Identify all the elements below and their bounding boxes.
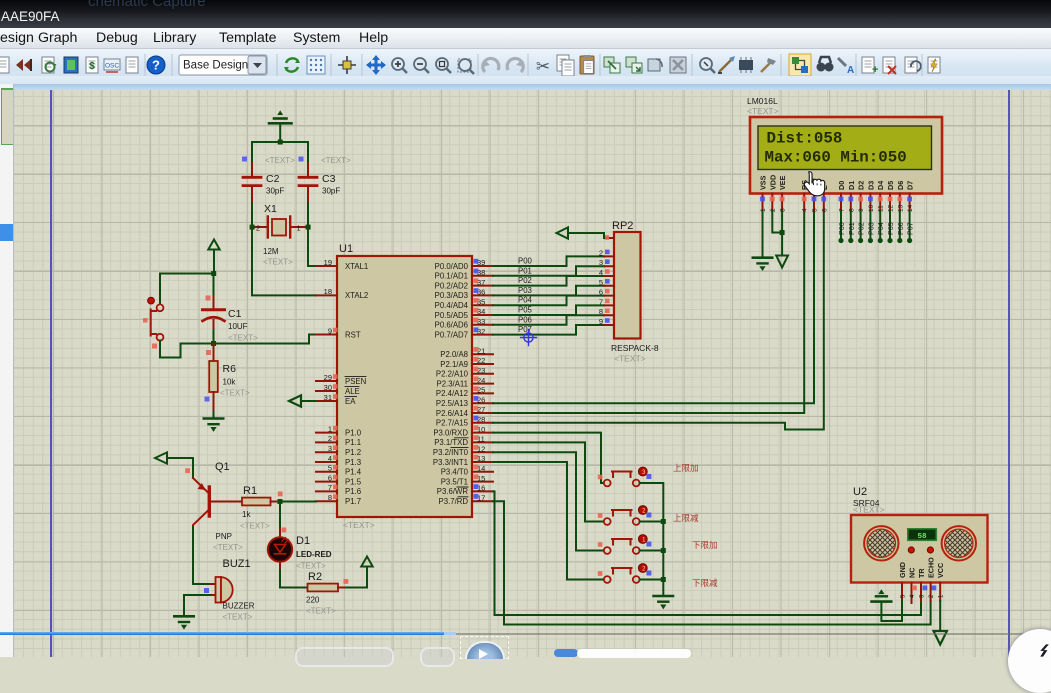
svg-text:19: 19	[324, 258, 332, 267]
svg-text:P3.2/INT0: P3.2/INT0	[433, 448, 469, 457]
resistor R2	[306, 571, 346, 616]
icon new sheet	[862, 57, 878, 76]
resistor pack RP2	[611, 220, 659, 364]
wire P07 net U1 to RP2	[493, 325, 604, 335]
icon hammer	[761, 58, 776, 72]
wire P05 net U1 to RP2	[493, 305, 604, 315]
U1 left pin stubs	[316, 266, 337, 501]
node junction R1/D1	[278, 499, 283, 504]
wire LCD D0 dangling	[840, 211, 842, 240]
capacitor C2	[242, 156, 295, 203]
node junction key3	[661, 548, 666, 553]
icon goto sheet	[905, 57, 921, 73]
wire C2 bottom to X1	[251, 203, 253, 227]
U1 right overlines TXD INT0 WR RD	[451, 438, 468, 497]
crystal X1	[252, 203, 308, 267]
capacitor C3	[299, 156, 352, 203]
svg-text:PSEN: PSEN	[345, 377, 366, 386]
power terminal left arrow (Q1 emitter)	[155, 452, 167, 463]
svg-text:12M: 12M	[263, 247, 279, 256]
wire D1 to R2	[280, 570, 308, 588]
svg-text:NC: NC	[908, 568, 917, 578]
svg-text:P05: P05	[518, 306, 533, 315]
svg-text:D3: D3	[866, 181, 875, 190]
svg-text:P04: P04	[518, 296, 533, 305]
separator	[527, 54, 529, 76]
svg-text:P0.7/AD7: P0.7/AD7	[435, 330, 468, 339]
LCD pin state squares	[760, 197, 912, 202]
power terminal up (R2)	[361, 557, 372, 567]
svg-text:P0.2/AD2: P0.2/AD2	[435, 281, 468, 290]
svg-text:P03: P03	[866, 222, 875, 235]
U1 right pin stubs	[472, 266, 493, 501]
svg-text:RESPACK-8: RESPACK-8	[611, 343, 659, 353]
svg-text:<TEXT>: <TEXT>	[747, 106, 779, 116]
power terminal left arrow (EA)	[289, 395, 301, 406]
sheet border right	[1008, 90, 1010, 657]
block copy icon	[604, 57, 620, 73]
SRF04 U2 body	[851, 515, 988, 583]
svg-text:PNP: PNP	[216, 532, 232, 541]
svg-text:4: 4	[802, 208, 809, 212]
player ghost control 1	[295, 647, 394, 667]
wire P3.0 to key 1	[493, 433, 604, 483]
wire LCD D3 dangling	[869, 211, 871, 240]
svg-text:GND: GND	[898, 562, 907, 578]
svg-text:<TEXT>: <TEXT>	[220, 389, 250, 398]
SRF04 digital display	[908, 529, 937, 541]
push button key3	[598, 535, 652, 554]
wire LCD D2 dangling	[860, 211, 862, 240]
U1 left pin numbers	[324, 258, 332, 502]
icon ic-edit	[739, 57, 753, 73]
svg-text:U1: U1	[339, 243, 353, 255]
svg-text:30: 30	[324, 383, 332, 392]
icon dollar doc	[86, 57, 98, 73]
svg-text:D5: D5	[886, 181, 895, 190]
svg-text:9: 9	[328, 326, 332, 335]
svg-text:P2.6/A14: P2.6/A14	[436, 409, 469, 418]
LCD pin numbers	[760, 204, 914, 212]
svg-text:R1: R1	[243, 485, 257, 497]
wire C2 top	[251, 142, 253, 163]
block delete icon	[670, 57, 686, 73]
svg-text:P1.6: P1.6	[345, 487, 361, 496]
svg-text:ALE: ALE	[345, 387, 360, 396]
separator	[855, 54, 857, 76]
icon help	[147, 56, 165, 74]
svg-text:10UF: 10UF	[228, 322, 248, 331]
wire P3.6 to SRF04 TR	[493, 491, 921, 615]
svg-text:VDD: VDD	[768, 175, 777, 190]
wire P3.2 to key 3	[493, 452, 604, 550]
ground (crystal top)	[269, 111, 292, 142]
svg-text:P1.5: P1.5	[345, 477, 362, 486]
power terminal (RST top)	[208, 240, 219, 274]
svg-text:VSS: VSS	[759, 175, 768, 190]
SRF04 pin stubs	[902, 583, 940, 604]
player dashed focus box	[460, 636, 509, 659]
U1 right pin names	[433, 262, 469, 506]
svg-text:P07: P07	[906, 222, 915, 235]
ground (SRF04)	[872, 590, 892, 601]
svg-text:D7: D7	[906, 181, 915, 190]
svg-text:2: 2	[599, 248, 603, 257]
wire P3.3 to key 4	[493, 462, 604, 580]
svg-text:RST: RST	[345, 330, 361, 339]
svg-text:29: 29	[324, 373, 332, 382]
svg-text:P3.4/T0: P3.4/T0	[441, 468, 469, 477]
wire P06 net U1 to RP2	[493, 315, 604, 325]
svg-text:P1.1: P1.1	[345, 438, 361, 447]
wire LCD D6 dangling	[899, 211, 901, 240]
node junction crystal top	[278, 140, 283, 145]
U1 pin name overlines PSEN ALE EA	[345, 377, 366, 397]
svg-text:1k: 1k	[242, 510, 251, 519]
power terminal down (VEE)	[776, 256, 788, 268]
svg-text:9: 9	[599, 317, 603, 326]
SRF04 led 2	[927, 547, 933, 553]
svg-text:P2.5/A13: P2.5/A13	[436, 399, 468, 408]
svg-text:8: 8	[328, 493, 332, 502]
svg-text:6: 6	[328, 473, 332, 482]
node junction VDD/VEE	[780, 230, 785, 235]
U1 right pin state squares	[474, 259, 479, 499]
svg-text:P01: P01	[847, 222, 856, 235]
svg-text:P1.7: P1.7	[345, 497, 361, 506]
svg-text:P3.7/RD: P3.7/RD	[439, 497, 469, 506]
ground (keys)	[654, 596, 673, 608]
separator	[330, 54, 332, 76]
push button key4	[598, 564, 652, 583]
svg-text:BUZ1: BUZ1	[223, 558, 251, 570]
wire P2.5 to LCD RW	[493, 211, 814, 403]
icon copy	[557, 55, 574, 76]
svg-text:P01: P01	[518, 266, 532, 275]
wire crystal top node	[252, 141, 308, 143]
svg-text:P02: P02	[857, 222, 866, 235]
wire P03 net U1 to RP2	[493, 286, 604, 296]
svg-text:P1.3: P1.3	[345, 458, 361, 467]
svg-text:1: 1	[328, 424, 332, 433]
wire R1 to U1 P1.7	[280, 501, 316, 503]
svg-text:2: 2	[328, 434, 332, 443]
wire P2.6 to LCD RS	[493, 211, 804, 413]
svg-text:P2.4/A12: P2.4/A12	[436, 389, 468, 398]
svg-text:C3: C3	[322, 173, 336, 185]
svg-text:<TEXT>: <TEXT>	[265, 156, 295, 165]
separator	[144, 54, 146, 76]
RP2 pin 1 stub	[604, 237, 614, 239]
svg-text:6: 6	[599, 288, 603, 297]
svg-text:C2: C2	[266, 173, 280, 185]
svg-text:3: 3	[328, 444, 332, 453]
separator	[599, 54, 601, 76]
svg-text:P03: P03	[518, 286, 532, 295]
left object selector panel	[0, 84, 14, 657]
svg-text:P3.3/INT1: P3.3/INT1	[433, 458, 468, 467]
wire P2.7 to LCD E	[493, 211, 824, 430]
svg-text:<TEXT>: <TEXT>	[321, 156, 351, 165]
icon undo (disabled)	[482, 58, 499, 72]
svg-text:<TEXT>: <TEXT>	[223, 613, 253, 622]
wire P3.1 to key 2	[493, 442, 604, 521]
wire reset button bottom to C1 bottom node	[160, 341, 214, 358]
block move icon	[626, 57, 642, 73]
svg-text:P0.5/AD5: P0.5/AD5	[435, 311, 469, 320]
mouse cursor	[804, 172, 824, 196]
microcontroller U1 body	[337, 243, 472, 530]
SRF04 pin state squares	[912, 586, 936, 591]
icon grid dots	[307, 56, 325, 74]
svg-text:P0.1/AD1: P0.1/AD1	[435, 272, 468, 281]
svg-text:P2.7/A15: P2.7/A15	[436, 419, 469, 428]
svg-text:BUZZER: BUZZER	[223, 602, 255, 611]
svg-text:6: 6	[821, 208, 828, 212]
node junction key4	[661, 577, 666, 582]
wire LCD D7 dangling	[909, 211, 911, 240]
LCD LM016L body	[750, 117, 942, 194]
svg-text:P00: P00	[518, 257, 533, 266]
LED D1	[268, 529, 332, 571]
icon zoom all	[436, 58, 451, 73]
svg-text:P1.2: P1.2	[345, 448, 361, 457]
block rotate icon	[648, 59, 662, 71]
transistor Q1 PNP	[193, 461, 243, 584]
origin marker	[521, 330, 537, 346]
svg-text:U2: U2	[853, 486, 867, 498]
separator	[361, 54, 363, 76]
svg-text:Max:060 Min:050: Max:060 Min:050	[765, 149, 907, 167]
power terminal down (SRF04 VCC)	[934, 631, 947, 645]
svg-text:R6: R6	[223, 363, 237, 375]
U1 left pin state squares	[333, 328, 338, 499]
svg-text:C1: C1	[228, 308, 242, 320]
toolbar	[0, 49, 1051, 84]
wire junction to D1	[279, 502, 281, 530]
svg-text:P2.1/A9: P2.1/A9	[440, 360, 468, 369]
svg-text:D4: D4	[876, 181, 885, 190]
svg-text:上限加: 上限加	[673, 463, 699, 473]
icon cut	[536, 57, 550, 76]
ground (BUZ1)	[174, 616, 193, 628]
icon back arrows	[16, 59, 31, 71]
svg-text:<TEXT>: <TEXT>	[240, 522, 270, 531]
svg-text:<TEXT>: <TEXT>	[614, 354, 646, 364]
node junction key2	[661, 519, 666, 524]
svg-text:<TEXT>: <TEXT>	[296, 562, 326, 571]
wire key4 to ground	[640, 580, 664, 595]
RP2 pins 2-9 stubs	[604, 256, 614, 325]
separator	[276, 54, 278, 76]
icon paste	[580, 55, 594, 74]
svg-text:VCC: VCC	[936, 563, 945, 578]
svg-text:7: 7	[599, 297, 603, 306]
wire SRF04 GND to ground	[881, 601, 902, 621]
svg-text:P04: P04	[876, 222, 885, 235]
separator	[691, 54, 693, 76]
sheet border left	[50, 90, 52, 657]
icon property wrench	[838, 58, 854, 76]
player blue pill	[554, 649, 578, 657]
RP2 pin state squares	[605, 250, 610, 323]
window title bar	[0, 0, 1051, 28]
node junction C1/R6/RST	[211, 341, 216, 346]
svg-text:Q1: Q1	[215, 461, 230, 473]
svg-text:Dist:058: Dist:058	[767, 130, 843, 148]
wire node to reset button	[160, 274, 214, 304]
svg-text:P2.0/A8: P2.0/A8	[440, 350, 468, 359]
LCD pin names	[759, 175, 915, 190]
wire P01 net U1 to RP2	[493, 266, 604, 276]
separator	[477, 54, 479, 76]
push button key1	[598, 467, 652, 486]
svg-text:LED-RED: LED-RED	[296, 550, 332, 559]
wire X1 left to XTAL2	[252, 227, 316, 295]
reset push button	[143, 297, 163, 348]
separator	[171, 54, 173, 76]
icon partial left edge	[0, 57, 9, 73]
svg-text:220: 220	[306, 596, 320, 605]
svg-text:2: 2	[256, 224, 260, 233]
svg-text:5: 5	[599, 278, 603, 287]
U1 right pin numbers	[477, 258, 485, 502]
svg-text:4: 4	[328, 454, 332, 463]
svg-text:P06: P06	[518, 315, 532, 324]
video progress bar played	[0, 632, 444, 635]
wire LCD VEE to power	[781, 211, 783, 255]
svg-text:P3.6/WR: P3.6/WR	[437, 487, 469, 496]
svg-text:RP2: RP2	[612, 220, 633, 232]
push button key2	[598, 506, 652, 525]
svg-text:D0: D0	[837, 181, 846, 190]
svg-text:<TEXT>: <TEXT>	[306, 607, 336, 616]
svg-text:<TEXT>: <TEXT>	[263, 258, 293, 267]
logo circle bottom right	[1008, 629, 1051, 693]
svg-text:P0.4/AD4: P0.4/AD4	[435, 301, 469, 310]
resistor R6	[205, 344, 251, 413]
buzzer BUZ1	[204, 558, 255, 622]
svg-text:1: 1	[297, 224, 301, 233]
svg-text:LM016L: LM016L	[747, 96, 778, 106]
svg-text:P1.0: P1.0	[345, 428, 362, 437]
capacitor C1	[203, 274, 259, 356]
svg-text:30pF: 30pF	[322, 187, 340, 196]
separator	[780, 54, 782, 76]
svg-text:下限减: 下限减	[692, 578, 718, 588]
svg-text:VEE: VEE	[778, 175, 787, 190]
player play button	[465, 641, 505, 659]
icon remove sheet	[883, 57, 896, 74]
player ghost control 2	[420, 647, 455, 667]
RP2 pin numbers	[599, 248, 603, 326]
icon pick	[700, 58, 715, 73]
wire C3 bottom to X1	[307, 203, 309, 227]
node junction X1 left	[250, 225, 255, 230]
wire R2 to power	[346, 567, 367, 588]
player white bar	[577, 649, 691, 658]
icon refresh green	[284, 58, 300, 71]
combo box Base Design	[179, 55, 267, 75]
svg-text:D1: D1	[296, 535, 310, 547]
wire EA to power	[301, 400, 316, 402]
wire Q1 collector to BUZ1	[193, 583, 210, 585]
wire LCD VDD	[772, 211, 782, 233]
key labels chinese	[673, 463, 718, 588]
menu bar	[0, 28, 1051, 49]
wire key3 to common	[640, 551, 664, 580]
ground (R6 bottom)	[204, 412, 223, 431]
svg-text:D2: D2	[857, 181, 866, 190]
U1 left pin names	[345, 262, 368, 506]
svg-text:<TEXT>: <TEXT>	[228, 334, 258, 343]
wire X1 right to XTAL1	[308, 227, 316, 266]
svg-text:ECHO: ECHO	[927, 557, 936, 578]
svg-text:TR: TR	[917, 568, 926, 578]
ground (LCD VSS)	[753, 258, 772, 270]
svg-text:58: 58	[917, 533, 927, 541]
svg-text:XTAL2: XTAL2	[345, 291, 368, 300]
wire BUZ1 to ground	[184, 595, 210, 615]
wire SRF04 VCC to power	[939, 601, 941, 631]
svg-text:EA: EA	[345, 397, 356, 406]
svg-text:P0.3/AD3: P0.3/AD3	[435, 291, 468, 300]
svg-text:8: 8	[599, 307, 603, 316]
wire key2 to common	[640, 522, 664, 551]
resistor R1	[211, 485, 280, 531]
svg-text:3: 3	[599, 258, 603, 267]
svg-text:18: 18	[324, 287, 332, 296]
icon zoom area	[458, 59, 474, 74]
node junction RST top	[211, 271, 216, 276]
LCD pin stubs	[763, 194, 910, 212]
icon component mode (highlighted)	[789, 54, 811, 76]
svg-text:X1: X1	[264, 203, 277, 215]
svg-text:上限减: 上限减	[673, 513, 699, 523]
node junction X1 right	[306, 225, 311, 230]
icon electrical check	[928, 57, 1051, 693]
wire LCD D5 dangling	[889, 211, 891, 240]
svg-text:<TEXT>: <TEXT>	[213, 543, 243, 552]
wire P02 net U1 to RP2	[493, 276, 604, 286]
icon probe	[718, 56, 735, 73]
svg-text:10k: 10k	[223, 378, 237, 387]
icon osc	[104, 59, 120, 72]
svg-text:7: 7	[328, 483, 332, 492]
icon origin crosshair	[338, 56, 356, 74]
wire LCD VSS to ground	[762, 211, 764, 257]
svg-text:D1: D1	[847, 181, 856, 190]
icon redo (disabled)	[507, 58, 524, 72]
svg-text:P2.3/A11: P2.3/A11	[437, 379, 469, 388]
svg-text:P0.6/AD6: P0.6/AD6	[435, 321, 468, 330]
separator	[921, 54, 923, 76]
SRF04 left transducer	[864, 526, 898, 560]
icon doc	[126, 57, 138, 73]
svg-text:30pF: 30pF	[266, 187, 284, 196]
icon zoom out	[414, 58, 429, 73]
svg-text:5: 5	[328, 464, 332, 473]
icon refresh-doc	[42, 57, 57, 73]
svg-text:P3.5/T1: P3.5/T1	[441, 477, 468, 486]
icon zoom in	[392, 58, 407, 73]
wire P04 net U1 to RP2	[493, 296, 604, 306]
SRF04 pin names	[898, 557, 945, 578]
wire RST net to U1	[214, 335, 317, 344]
video progress bar rest	[456, 633, 1051, 635]
svg-text:P3.1/TXD: P3.1/TXD	[434, 438, 468, 447]
svg-text:P06: P06	[896, 222, 905, 235]
